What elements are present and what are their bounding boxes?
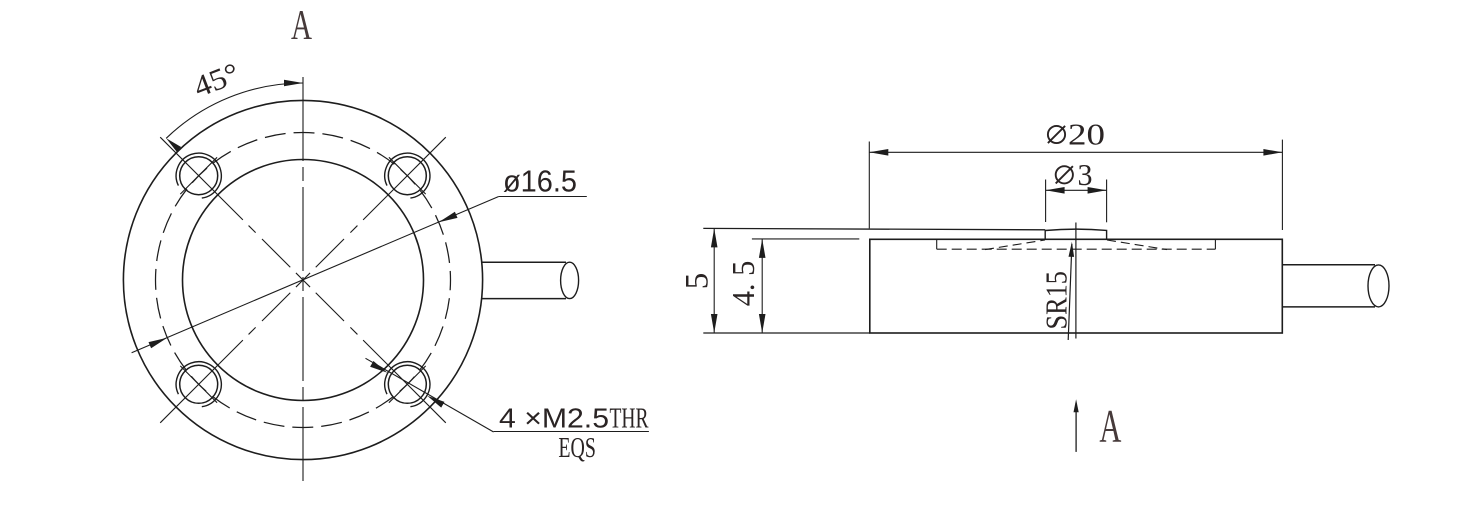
svg-text:A: A (1099, 401, 1121, 453)
svg-text:20: 20 (1068, 117, 1105, 152)
svg-text:4 ×M2.5: 4 ×M2.5 (499, 402, 609, 433)
svg-text:3: 3 (1078, 157, 1093, 192)
svg-text:4. 5: 4. 5 (725, 261, 761, 307)
svg-text:SR15: SR15 (1038, 271, 1073, 329)
svg-text:EQS: EQS (558, 432, 596, 464)
svg-text:ø16.5: ø16.5 (503, 164, 577, 199)
svg-text:A: A (291, 3, 312, 49)
svg-text:5: 5 (680, 273, 716, 290)
svg-text:THR: THR (610, 402, 649, 434)
